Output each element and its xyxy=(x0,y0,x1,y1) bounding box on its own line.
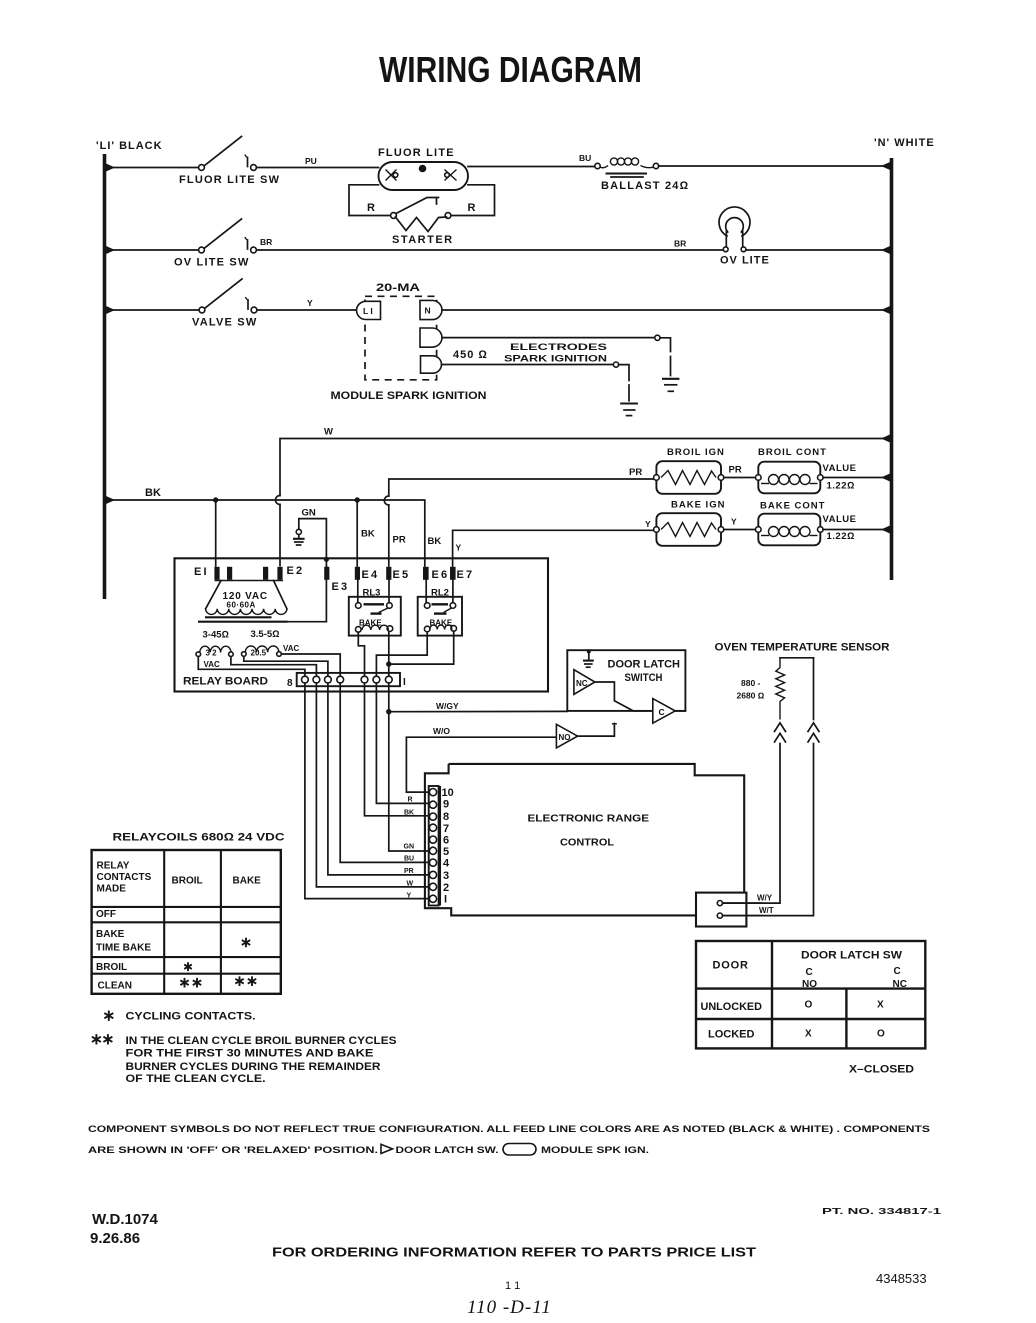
wire electrode1 to ground xyxy=(442,335,671,375)
svg-text:OF THE CLEAN CYCLE.: OF THE CLEAN CYCLE. xyxy=(126,1073,266,1085)
svg-text:ELECTRODES: ELECTRODES xyxy=(510,342,607,353)
symbol door latch triangle xyxy=(381,1144,393,1153)
terminal E1 xyxy=(214,567,219,580)
svg-text:W: W xyxy=(324,427,333,438)
svg-text:VALVE SW: VALVE SW xyxy=(192,317,257,329)
svg-text:Y: Y xyxy=(645,519,651,529)
svg-text:PT. NO. 334817-1: PT. NO. 334817-1 xyxy=(822,1206,941,1216)
inductor BALLAST 24 ohm xyxy=(595,158,689,192)
svg-text:X: X xyxy=(877,1000,884,1011)
svg-text:VALUE: VALUE xyxy=(823,463,857,474)
svg-text:880 -: 880 - xyxy=(741,678,761,688)
wire BK branch xyxy=(106,487,425,566)
svg-text:7: 7 xyxy=(443,823,449,835)
svg-text:FOR THE FIRST 30 MINUTES AND B: FOR THE FIRST 30 MINUTES AND BAKE xyxy=(126,1048,374,1060)
svg-text:'N' WHITE: 'N' WHITE xyxy=(874,137,935,149)
svg-text:Y: Y xyxy=(307,298,313,308)
svg-text:DOOR LATCH SW.: DOOR LATCH SW. xyxy=(396,1145,499,1156)
wire E7 to RL2 xyxy=(452,580,454,603)
svg-text:BAKE: BAKE xyxy=(233,876,262,887)
gate C door latch xyxy=(653,699,686,724)
connector arrows left xyxy=(775,723,786,742)
svg-text:N: N xyxy=(425,306,431,316)
svg-text:BALLAST 24Ω: BALLAST 24Ω xyxy=(601,180,689,192)
wire row3 N to rail xyxy=(442,309,890,311)
ERC sensor connector box xyxy=(696,893,774,927)
wire sensor right to W/T xyxy=(723,744,814,916)
wire E3 to transformer secondary xyxy=(288,566,327,622)
svg-text:OVEN TEMPERATURE SENSOR: OVEN TEMPERATURE SENSOR xyxy=(715,642,890,654)
gate NC door latch xyxy=(574,670,653,711)
svg-text:R: R xyxy=(367,202,375,214)
svg-text:BROIL CONT: BROIL CONT xyxy=(758,447,827,458)
svg-text:BR: BR xyxy=(674,239,686,249)
lamp OV LITE xyxy=(719,207,770,267)
wire strip7 to ERC T5 GN with W/GY tap xyxy=(389,683,429,851)
ground right xyxy=(662,379,679,392)
svg-text:MODULE SPK IGN.: MODULE SPK IGN. xyxy=(541,1145,649,1156)
junction W/GY xyxy=(386,709,391,714)
symbol module oval xyxy=(503,1144,536,1156)
svg-text:1.22Ω: 1.22Ω xyxy=(827,481,855,492)
svg-text:SWITCH: SWITCH xyxy=(625,672,663,684)
svg-text:E 7: E 7 xyxy=(457,569,473,581)
junction right rail bake cont xyxy=(881,526,890,534)
svg-text:UNLOCKED: UNLOCKED xyxy=(701,1001,763,1013)
wire E4 to BK xyxy=(356,500,358,566)
wire row2 BR xyxy=(257,249,724,251)
junction left rail BK xyxy=(106,496,115,504)
svg-text:W/O: W/O xyxy=(433,726,450,736)
junction left rail row2 xyxy=(106,246,115,254)
terminal L1 xyxy=(357,301,381,319)
svg-text:CONTACTS: CONTACTS xyxy=(97,872,152,883)
svg-text:GN: GN xyxy=(302,508,316,519)
switch FLUOR LITE SW xyxy=(106,137,280,187)
svg-text:NC: NC xyxy=(893,979,907,990)
svg-text:10: 10 xyxy=(442,787,454,799)
svg-text:I: I xyxy=(403,677,406,688)
svg-text:L I: L I xyxy=(363,306,373,316)
svg-text:E 3: E 3 xyxy=(332,581,348,593)
wire RL3 bottom-right to strip 7 xyxy=(388,631,390,676)
svg-text:STARTER: STARTER xyxy=(392,234,454,246)
svg-text:CLEAN: CLEAN xyxy=(98,981,132,992)
svg-text:BR: BR xyxy=(260,237,272,247)
relay coil BROIL CONT xyxy=(756,447,857,493)
svg-text:NO: NO xyxy=(802,979,817,990)
relay board box xyxy=(175,558,549,691)
wire Y bake branch xyxy=(453,519,655,566)
wire coil2 right to strip 4 xyxy=(281,654,340,676)
wire row1 to ballast BU xyxy=(468,166,595,168)
svg-text:9.26.86: 9.26.86 xyxy=(90,1230,140,1247)
svg-text:Y: Y xyxy=(407,893,412,900)
terminal E7 xyxy=(450,567,456,580)
junction right rail row3 xyxy=(881,306,890,314)
svg-text:2: 2 xyxy=(443,882,449,894)
terminal E5 xyxy=(386,567,391,580)
svg-text:3.5-5Ω: 3.5-5Ω xyxy=(251,629,280,640)
wire right rail N bus xyxy=(890,158,894,580)
electrode bullet 2 xyxy=(421,356,442,373)
svg-text:O: O xyxy=(877,1029,885,1040)
wire strip6 to ERC T9 R xyxy=(376,683,428,803)
asterisk broil cell xyxy=(184,962,192,971)
wire left rail L1 bus xyxy=(103,154,107,599)
svg-text:GN: GN xyxy=(404,844,415,851)
svg-text:PR: PR xyxy=(404,868,414,875)
svg-text:RELAY: RELAY xyxy=(97,861,130,872)
asterisk bake cell xyxy=(242,938,250,948)
wire E6 to RL2 xyxy=(425,580,427,603)
svg-text:COMPONENT SYMBOLS DO NOT REFLE: COMPONENT SYMBOLS DO NOT REFLECT TRUE CO… xyxy=(88,1124,930,1135)
svg-text:W/GY: W/GY xyxy=(436,701,459,711)
module spark ignition dashed box xyxy=(365,296,437,380)
svg-text:W.D.1074: W.D.1074 xyxy=(92,1211,159,1228)
svg-text:BK: BK xyxy=(428,536,442,547)
svg-text:FLUOR LITE: FLUOR LITE xyxy=(378,147,455,159)
lamp FLUOR LITE xyxy=(378,147,468,190)
svg-text:R: R xyxy=(408,797,413,804)
wire starter loop xyxy=(349,185,391,216)
wire broil ign to cont PR xyxy=(724,477,756,479)
starter xyxy=(367,198,476,247)
svg-text:DOOR: DOOR xyxy=(713,960,749,972)
wire RL2 bottom-left to strip 6 xyxy=(376,632,427,676)
svg-text:ELECTRONIC RANGE: ELECTRONIC RANGE xyxy=(528,813,650,825)
svg-text:X–CLOSED: X–CLOSED xyxy=(849,1064,914,1076)
svg-text:MADE: MADE xyxy=(97,884,127,895)
svg-text:E 6: E 6 xyxy=(432,569,448,581)
svg-text:RELAYCOILS 680Ω 24 VDC: RELAYCOILS 680Ω 24 VDC xyxy=(113,832,285,844)
svg-text:VALUE: VALUE xyxy=(823,514,857,525)
svg-text:Y: Y xyxy=(456,543,462,553)
svg-text:3 2: 3 2 xyxy=(206,649,218,658)
wire E5 to RL3 xyxy=(388,580,390,603)
wire sensor left to W/Y xyxy=(723,744,781,904)
svg-text:C: C xyxy=(894,966,901,977)
junction RL commons xyxy=(386,661,391,666)
door latch switch box xyxy=(567,650,685,711)
svg-text:E 4: E 4 xyxy=(362,569,379,581)
terminal E6 xyxy=(423,567,429,580)
junction right rail row2 xyxy=(881,246,890,254)
svg-text:C: C xyxy=(806,967,813,978)
transformer 120 VAC xyxy=(198,581,288,622)
svg-text:E 5: E 5 xyxy=(393,569,409,581)
wire E1 to BK xyxy=(215,500,217,566)
svg-text:BAKE: BAKE xyxy=(430,619,453,628)
svg-text:BROIL: BROIL xyxy=(172,876,203,887)
svg-text:60·60A: 60·60A xyxy=(227,601,256,610)
svg-text:8: 8 xyxy=(287,678,293,689)
svg-text:3: 3 xyxy=(443,870,449,882)
svg-text:BAKE CONT: BAKE CONT xyxy=(760,501,825,512)
svg-text:FOR ORDERING INFORMATION REFER: FOR ORDERING INFORMATION REFER TO PARTS … xyxy=(272,1246,756,1260)
svg-text:SPARK IGNITION: SPARK IGNITION xyxy=(504,354,607,365)
svg-text:Y: Y xyxy=(731,517,737,527)
wire RL3 bottom-left to strip 5 xyxy=(358,632,364,676)
inductor 3.5-5 ohm xyxy=(242,629,300,658)
wire PR broil branch xyxy=(384,467,654,566)
svg-text:BROIL: BROIL xyxy=(96,962,127,973)
svg-text:W/Y: W/Y xyxy=(757,894,773,903)
svg-text:20.5: 20.5 xyxy=(251,649,267,658)
junction right rail broil cont xyxy=(881,474,890,482)
svg-text:O: O xyxy=(805,1000,813,1011)
sensor right leg xyxy=(813,658,815,720)
svg-text:4348533: 4348533 xyxy=(876,1271,927,1286)
switch VALVE SW xyxy=(106,279,257,329)
junction left rail row3 xyxy=(106,306,115,314)
wire W/O from ERC T10 to NO gate xyxy=(406,737,556,792)
wire common to RL2 bottom-right xyxy=(389,631,454,664)
svg-text:PU: PU xyxy=(305,156,317,166)
svg-text:C: C xyxy=(659,707,665,717)
wire bake ign to cont Y xyxy=(724,529,756,531)
svg-text:TIME BAKE: TIME BAKE xyxy=(96,943,151,954)
GN ground branch xyxy=(293,508,329,567)
wire strip5 to ERC T8 BK xyxy=(365,683,429,816)
svg-text:I: I xyxy=(444,894,447,906)
svg-text:VAC: VAC xyxy=(204,660,221,669)
wire row3 Y xyxy=(257,309,356,311)
asterisks clean bake xyxy=(235,976,243,986)
wire row2 to N rail xyxy=(746,249,890,251)
junction right rail W xyxy=(881,435,890,443)
relay RL3 xyxy=(349,588,401,636)
svg-text:PR: PR xyxy=(393,535,406,546)
svg-text:BK: BK xyxy=(404,810,414,817)
svg-text:OV LITE: OV LITE xyxy=(720,255,770,267)
note clean cycle xyxy=(92,1034,397,1085)
terminal E4 xyxy=(355,567,360,580)
svg-text:WIRING DIAGRAM: WIRING DIAGRAM xyxy=(379,49,642,90)
svg-text:450 Ω: 450 Ω xyxy=(453,349,488,361)
svg-text:8: 8 xyxy=(443,811,449,823)
wire E4 to RL3 xyxy=(357,580,359,603)
svg-text:9: 9 xyxy=(443,799,449,811)
svg-text:MODULE SPARK IGNITION: MODULE SPARK IGNITION xyxy=(331,390,487,402)
relay coil BAKE CONT xyxy=(756,501,857,546)
svg-text:DOOR LATCH SW: DOOR LATCH SW xyxy=(801,950,903,962)
svg-text:W: W xyxy=(407,881,414,888)
svg-text:2680 Ω: 2680 Ω xyxy=(737,691,765,701)
wire coil1 left to strip 1 xyxy=(198,657,305,677)
svg-text:VAC: VAC xyxy=(283,644,300,653)
inductor 3-45 ohm xyxy=(196,630,233,670)
svg-text:BAKE: BAKE xyxy=(96,929,125,940)
electronic range control box outline xyxy=(425,764,744,916)
table relay contacts xyxy=(92,850,281,994)
gate NO door unlock xyxy=(556,724,617,748)
wire bake cont to rail xyxy=(823,529,890,531)
svg-text:1 1: 1 1 xyxy=(505,1280,520,1292)
svg-text:BROIL IGN: BROIL IGN xyxy=(667,447,725,458)
svg-text:CYCLING CONTACTS.: CYCLING CONTACTS. xyxy=(126,1011,256,1023)
resistor 880-2680 ohm vertical xyxy=(737,658,785,720)
wire strip4 to ERC T4 BU xyxy=(340,683,429,862)
note cycling contacts xyxy=(104,1011,113,1021)
terminal N xyxy=(420,300,442,319)
svg-text:5: 5 xyxy=(443,846,449,858)
ground left xyxy=(620,404,638,416)
svg-text:NC: NC xyxy=(576,679,588,688)
svg-text:X: X xyxy=(805,1029,812,1040)
svg-text:'LI' BLACK: 'LI' BLACK xyxy=(96,140,163,152)
svg-text:1.22Ω: 1.22Ω xyxy=(827,531,855,542)
svg-text:R: R xyxy=(468,202,476,214)
relay RL2 xyxy=(418,588,462,636)
ground door latch xyxy=(583,650,594,668)
wire broil cont to rail xyxy=(823,477,890,479)
svg-text:FLUOR LITE SW: FLUOR LITE SW xyxy=(179,174,280,186)
svg-text:E 2: E 2 xyxy=(287,565,303,577)
table door latch xyxy=(696,941,925,1048)
electrode bullet 1 xyxy=(420,328,442,347)
junction left rail row1 xyxy=(106,164,115,172)
svg-text:BURNER CYCLES DURING THE REMAI: BURNER CYCLES DURING THE REMAINDER xyxy=(126,1061,381,1073)
svg-text:RELAY BOARD: RELAY BOARD xyxy=(183,676,268,688)
resistor BROIL IGN xyxy=(654,447,725,494)
junction right rail row1 xyxy=(881,162,890,170)
svg-text:BAKE IGN: BAKE IGN xyxy=(671,500,725,511)
svg-text:ARE SHOWN IN 'OFF' OR 'RELAXED: ARE SHOWN IN 'OFF' OR 'RELAXED' POSITION… xyxy=(88,1145,378,1156)
terminal E2 xyxy=(263,567,268,580)
ERC wire color labels xyxy=(404,797,415,900)
connector arrows right xyxy=(808,723,819,742)
svg-text:CONTROL: CONTROL xyxy=(560,837,615,849)
svg-text:PR: PR xyxy=(729,465,742,476)
svg-text:OFF: OFF xyxy=(96,909,116,920)
terminal E3 xyxy=(324,567,329,580)
svg-text:OV LITE SW: OV LITE SW xyxy=(174,257,250,269)
wire electrode2 to ground xyxy=(442,362,630,401)
sensor top bar xyxy=(780,657,814,659)
wire row1 ballast to N rail xyxy=(659,165,891,167)
wire strip1 to ERC T1 Y xyxy=(305,683,429,899)
asterisks clean broil xyxy=(180,978,188,988)
svg-text:6: 6 xyxy=(443,835,449,847)
wire row1 PU xyxy=(257,167,379,169)
svg-text:NO: NO xyxy=(559,733,571,742)
wire W/GY to door latch xyxy=(389,710,568,712)
svg-text:BK: BK xyxy=(361,529,375,540)
svg-text:110 -D-11: 110 -D-11 xyxy=(467,1297,552,1318)
svg-text:PR: PR xyxy=(629,467,642,478)
switch OV LITE SW xyxy=(106,219,256,269)
wire strip2 to ERC T2 W xyxy=(316,683,428,887)
svg-text:BK: BK xyxy=(145,487,161,499)
svg-text:LOCKED: LOCKED xyxy=(708,1029,755,1041)
svg-text:20-MA: 20-MA xyxy=(376,282,420,294)
svg-text:BU: BU xyxy=(404,856,414,863)
wire strip3 to ERC T3 PR xyxy=(328,683,429,875)
resistor BAKE IGN xyxy=(654,500,726,546)
svg-text:4: 4 xyxy=(443,858,450,870)
svg-text:DOOR LATCH: DOOR LATCH xyxy=(608,659,681,671)
ERC terminal numbers xyxy=(442,787,454,906)
svg-text:IN THE CLEAN CYCLE BROIL BURNE: IN THE CLEAN CYCLE BROIL BURNER CYCLES xyxy=(126,1035,397,1047)
wire coil1 right to strip 2 xyxy=(231,657,317,677)
svg-text:W/T: W/T xyxy=(759,906,774,915)
ERC terminal strip xyxy=(429,786,439,906)
wire coil2 left to strip 3 xyxy=(244,656,328,676)
svg-text:E I: E I xyxy=(194,566,207,578)
wire W neutral branch xyxy=(276,427,891,566)
svg-text:3-45Ω: 3-45Ω xyxy=(203,630,229,641)
relay board terminal strip xyxy=(287,673,406,689)
svg-text:BU: BU xyxy=(579,153,591,163)
